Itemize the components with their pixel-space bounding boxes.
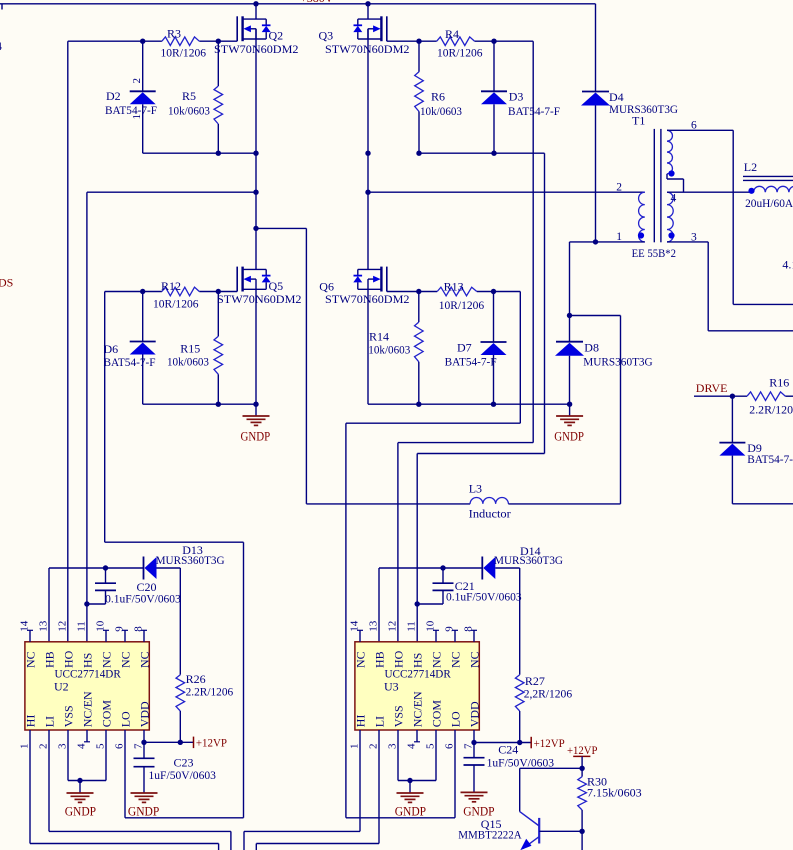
- svg-text:VDD: VDD: [468, 701, 482, 727]
- diode D13: [144, 557, 181, 580]
- wire node B bus: [415, 153, 545, 642]
- svg-text:MURS360T3G: MURS360T3G: [494, 555, 563, 567]
- svg-text:4: 4: [0, 39, 2, 53]
- label L2 value: [745, 196, 793, 210]
- svg-text:7.15k/0603: 7.15k/0603: [587, 786, 642, 800]
- inductor L3: [470, 498, 508, 504]
- wire T1 pin1 down: [567, 242, 572, 342]
- svg-text:STW70N60DM2: STW70N60DM2: [325, 42, 410, 56]
- resistor R6: [415, 41, 424, 153]
- resistor R27: [515, 568, 524, 743]
- svg-text:BAT54-7-F: BAT54-7-F: [104, 355, 156, 369]
- wire node A branch: [253, 226, 306, 504]
- svg-text:10k/0603: 10k/0603: [167, 355, 209, 369]
- svg-text:MURS360T3G: MURS360T3G: [583, 356, 652, 368]
- T1 winding5 to center tap: [667, 179, 684, 192]
- svg-text:10R/1206: 10R/1206: [437, 46, 483, 60]
- svg-text:D2: D2: [106, 89, 121, 103]
- wire U3 pin7 VDD: [471, 730, 531, 745]
- svg-text:UCC27714DR: UCC27714DR: [55, 666, 121, 680]
- svg-text:C23: C23: [174, 755, 194, 769]
- svg-text:GNDP: GNDP: [554, 430, 584, 444]
- T1 secondary dot 5: [668, 170, 674, 176]
- svg-text:VSS: VSS: [392, 705, 406, 727]
- svg-text:6: 6: [444, 743, 456, 749]
- node Q6 gate junction: [416, 289, 496, 294]
- transformer T1 core: [654, 129, 661, 242]
- svg-text:COM: COM: [100, 700, 114, 728]
- svg-text:14: 14: [349, 620, 361, 632]
- wire U2-HI to U3-LI: [30, 844, 379, 850]
- wire Q15 collector: [520, 768, 582, 811]
- wire Q3 gate bus: [398, 41, 533, 642]
- diode D7: [481, 292, 507, 405]
- label D9: [747, 441, 793, 466]
- svg-text:DS: DS: [0, 275, 13, 289]
- svg-text:NC: NC: [24, 651, 38, 668]
- svg-text:2.2R/120: 2.2R/120: [749, 403, 793, 417]
- svg-text:Q3: Q3: [319, 29, 334, 43]
- diode D4: [581, 4, 610, 242]
- svg-text:BAT54-7-F: BAT54-7-F: [445, 354, 497, 368]
- diode D6: [130, 292, 156, 405]
- svg-text:1uF/50V/0603: 1uF/50V/0603: [149, 770, 217, 782]
- IC U3 UCC27714DR body: [355, 642, 479, 730]
- node Q5 gate junction: [140, 289, 221, 294]
- svg-text:3: 3: [387, 743, 399, 749]
- svg-text:C20: C20: [137, 580, 157, 594]
- label R3: [161, 26, 207, 59]
- svg-text:6: 6: [691, 119, 697, 131]
- svg-text:10k/0603: 10k/0603: [420, 104, 462, 118]
- label UCC27714DR U3: [385, 666, 451, 680]
- svg-text:R16: R16: [769, 375, 789, 389]
- transistor Q6: [353, 267, 387, 292]
- svg-text:+12VP: +12VP: [567, 743, 598, 757]
- svg-text:R4: R4: [445, 27, 459, 41]
- resistor R16: [747, 392, 793, 401]
- inductor L2 core: [743, 176, 793, 180]
- node B rail dot: [365, 151, 370, 156]
- svg-text:R12: R12: [161, 279, 181, 293]
- svg-text:12: 12: [387, 621, 399, 632]
- svg-text:R6: R6: [431, 90, 445, 104]
- label R13: [439, 280, 485, 312]
- wire U2 pin2 LI: [48, 730, 50, 831]
- svg-text:EE 55B*2: EE 55B*2: [632, 248, 677, 260]
- svg-text:COM: COM: [430, 700, 444, 728]
- T1 secondary winding 6-5: [667, 130, 672, 179]
- svg-text:NC: NC: [354, 651, 368, 668]
- label C21: [446, 579, 522, 604]
- svg-text:1: 1: [349, 744, 361, 750]
- svg-text:10R/1206: 10R/1206: [153, 297, 199, 311]
- ground GNDP U2: [65, 793, 96, 819]
- label 4.1 (cropped): [782, 258, 793, 272]
- U3 pin4 NC/EN stub: [414, 730, 420, 742]
- pin numbers top U3: [349, 620, 475, 632]
- svg-text:5: 5: [95, 743, 107, 749]
- resistor R4: [437, 37, 475, 46]
- svg-text:14: 14: [19, 620, 31, 632]
- label Q5: [217, 279, 302, 306]
- ground GNDP C24: [461, 792, 495, 818]
- label U3: [384, 679, 399, 693]
- pin names bottom U3: [354, 691, 482, 727]
- svg-text:HI: HI: [24, 715, 38, 728]
- pin 1 of D2: [131, 114, 143, 120]
- wire node A to driver: [87, 190, 259, 195]
- svg-text:BAT54-7-: BAT54-7-: [747, 452, 793, 466]
- svg-text:BAT54-7-F: BAT54-7-F: [508, 104, 560, 118]
- svg-text:U3: U3: [384, 679, 399, 693]
- transistor Q3: [353, 16, 387, 41]
- svg-text:0.1uF/50V/0603: 0.1uF/50V/0603: [446, 592, 522, 604]
- label R26: [186, 672, 234, 699]
- pin 4 label T1: [671, 193, 677, 205]
- svg-text:NC/EN: NC/EN: [81, 691, 95, 727]
- resistor R26: [176, 568, 185, 742]
- label Q6: [319, 280, 409, 307]
- svg-text:VSS: VSS: [62, 705, 76, 727]
- diode D3: [481, 41, 507, 153]
- svg-text:1: 1: [616, 231, 622, 243]
- svg-text:VDD: VDD: [138, 701, 152, 727]
- svg-text:2,2R/1206: 2,2R/1206: [524, 687, 572, 701]
- wire Q5 gate row: [105, 291, 238, 293]
- node B rail: [416, 151, 544, 156]
- svg-text:MURS360T3G: MURS360T3G: [156, 555, 225, 567]
- svg-text:4.1: 4.1: [782, 258, 793, 272]
- IC U2 UCC27714DR body: [25, 642, 149, 730]
- svg-text:D4: D4: [609, 90, 624, 104]
- pin 2 of D2: [131, 78, 143, 84]
- svg-text:10R/1206: 10R/1206: [161, 46, 207, 60]
- pin 2 label T1: [616, 182, 622, 194]
- svg-text:HI: HI: [354, 715, 368, 728]
- node Q3 gate junction: [416, 39, 496, 44]
- svg-text:4: 4: [76, 743, 88, 749]
- svg-text:T1: T1: [632, 114, 645, 128]
- label D13: [156, 543, 225, 567]
- wire U3 pin1 HI: [359, 730, 361, 831]
- wire Q6 gate row: [387, 291, 521, 293]
- wire L3 left: [306, 503, 470, 505]
- U2 pin4 NC/EN stub: [84, 730, 90, 742]
- diode D8: [555, 342, 584, 405]
- svg-text:10k/0603: 10k/0603: [168, 103, 210, 117]
- pin numbers top U2: [19, 620, 145, 632]
- label R6: [420, 90, 462, 118]
- svg-text:U2: U2: [54, 679, 69, 693]
- svg-text:10k/0603: 10k/0603: [368, 342, 410, 356]
- svg-text:2: 2: [616, 182, 622, 194]
- svg-text:1: 1: [131, 114, 143, 120]
- U2 NC top pin stubs: [27, 630, 147, 642]
- diode D2: [130, 41, 156, 153]
- U3 NC top pin stubs: [357, 630, 477, 642]
- label D3: [508, 90, 560, 118]
- node Q2 gate junction: [140, 39, 221, 44]
- svg-text:STW70N60DM2: STW70N60DM2: [217, 292, 302, 306]
- pin 3 label T1: [691, 231, 697, 243]
- label C24: [487, 743, 555, 770]
- svg-text:UCC27714DR: UCC27714DR: [385, 666, 451, 680]
- wire +380V top rail: [0, 3, 596, 5]
- svg-text:10R/1206: 10R/1206: [439, 298, 485, 312]
- wire Q3 gate row: [387, 40, 533, 42]
- svg-text:D7: D7: [457, 341, 472, 355]
- ground GNDP row2 left: [241, 404, 271, 443]
- svg-text:GNDP: GNDP: [128, 805, 159, 819]
- label Q2: [214, 29, 299, 56]
- T1 center tap wire: [667, 191, 754, 193]
- T1 primary dot: [638, 232, 644, 238]
- svg-text:2: 2: [38, 744, 50, 750]
- label R12: [153, 279, 199, 311]
- svg-text:8: 8: [463, 626, 475, 632]
- pin 1 label T1: [616, 231, 622, 243]
- label L2: [744, 160, 757, 174]
- label EE55B*2: [632, 248, 677, 260]
- capacitor C24: [464, 743, 485, 793]
- transistor Q5: [237, 267, 271, 292]
- wire Q5 gate route: [105, 292, 244, 818]
- wire U3 pin2 LI: [378, 730, 380, 844]
- svg-text:GNDP: GNDP: [395, 805, 426, 819]
- wire node B to T1 pin2: [365, 190, 645, 195]
- pin 6 wire: [667, 130, 793, 304]
- svg-text:Q5: Q5: [269, 279, 284, 293]
- wire node B vertical: [367, 29, 369, 270]
- row2 right rail: [368, 402, 572, 407]
- wire stub left edge: [1, 4, 3, 10]
- svg-text:R5: R5: [182, 89, 196, 103]
- svg-text:20uH/60A: 20uH/60A: [745, 196, 793, 210]
- wire U2 pin7 VDD: [141, 730, 193, 745]
- svg-text:5: 5: [425, 743, 437, 749]
- svg-text:0.1uF/50V/0603: 0.1uF/50V/0603: [105, 594, 181, 606]
- svg-text:DRVE: DRVE: [696, 381, 728, 395]
- svg-text:LO: LO: [119, 711, 133, 727]
- svg-text:+12VP: +12VP: [534, 736, 566, 750]
- svg-text:R14: R14: [369, 329, 389, 343]
- pin 3 wire: [667, 242, 793, 331]
- svg-text:6: 6: [114, 743, 126, 749]
- svg-text:NC/EN: NC/EN: [411, 691, 425, 727]
- label R5: [168, 89, 210, 117]
- svg-text:+12VP: +12VP: [196, 736, 228, 750]
- wire Q5 source: [255, 289, 257, 404]
- resistor R3: [162, 37, 199, 46]
- label L3: [469, 482, 511, 521]
- wire U2 pin1 HI: [29, 730, 31, 844]
- svg-text:13: 13: [368, 620, 380, 632]
- resistor R15: [214, 292, 223, 405]
- svg-text:L2: L2: [744, 160, 757, 174]
- wire U3 pin6 LO: [346, 730, 455, 818]
- ground GNDP C23: [128, 793, 159, 819]
- net label DS (cropped): [0, 275, 13, 289]
- diode D14: [482, 557, 519, 580]
- node Q15 base: [579, 829, 584, 834]
- resistor R12: [162, 287, 199, 296]
- label T1: [632, 114, 645, 128]
- svg-text:10: 10: [95, 620, 107, 632]
- wire D8 node to L3: [570, 316, 621, 504]
- svg-text:10: 10: [425, 620, 437, 632]
- wire L3 right: [508, 503, 620, 505]
- label D7: [445, 341, 497, 369]
- svg-text:D6: D6: [104, 342, 119, 356]
- svg-text:Q2: Q2: [269, 29, 284, 43]
- svg-text:9: 9: [444, 626, 456, 632]
- label D6: [104, 342, 156, 369]
- T1 secondary dot 3: [668, 232, 674, 238]
- svg-text:1: 1: [19, 744, 31, 750]
- svg-text:8: 8: [133, 626, 145, 632]
- pin numbers bottom U2: [19, 743, 145, 749]
- svg-text:D8: D8: [584, 341, 599, 355]
- wire Q2 gate row: [68, 40, 237, 42]
- svg-text:MMBT2222A: MMBT2222A: [458, 828, 522, 842]
- wire DRVE: [694, 394, 747, 399]
- diode D9: [719, 396, 793, 504]
- capacitor C20: [87, 568, 116, 604]
- svg-text:3: 3: [57, 743, 69, 749]
- resistor R5: [214, 41, 223, 153]
- label R16: [749, 375, 793, 416]
- label R15: [167, 341, 209, 368]
- power port +12VP U3: [531, 736, 565, 750]
- svg-text:11: 11: [76, 621, 88, 632]
- wire Q6 gate route: [346, 292, 520, 818]
- label Q15: [458, 817, 522, 842]
- wire HB net U3: [379, 565, 482, 642]
- svg-text:Inductor: Inductor: [469, 507, 511, 521]
- svg-text:13: 13: [38, 620, 50, 632]
- wire HB net U2: [49, 565, 144, 642]
- svg-text:NC: NC: [468, 651, 482, 668]
- svg-text:LI: LI: [43, 716, 57, 727]
- net label 4 (cropped): [0, 39, 2, 53]
- wire Q2 gate bus: [67, 41, 69, 642]
- svg-text:+380V: +380V: [300, 0, 334, 5]
- power port +380V (cropped): [300, 0, 334, 5]
- power port +12VP U2: [194, 736, 228, 750]
- wire Q3 drain: [365, 1, 370, 19]
- svg-text:NC: NC: [138, 651, 152, 668]
- label R30: [587, 774, 642, 799]
- T1 pin 1 lead: [570, 239, 645, 244]
- power port DRVE: [696, 381, 728, 395]
- power port +12VP R30: [567, 743, 598, 769]
- T1 secondary winding 4-3: [667, 192, 673, 242]
- pin numbers bottom U3: [349, 743, 475, 749]
- svg-text:4: 4: [406, 743, 418, 749]
- pin names bottom U2: [24, 691, 152, 727]
- svg-text:4: 4: [671, 193, 677, 205]
- svg-text:R3: R3: [167, 26, 181, 40]
- pin names top U2: [24, 650, 152, 668]
- resistor R14: [415, 292, 424, 405]
- T1 primary winding: [639, 192, 645, 242]
- wire U3 VSS/COM: [398, 730, 436, 793]
- wire node A vertical: [255, 29, 257, 270]
- svg-text:GNDP: GNDP: [241, 430, 271, 444]
- label Q3: [319, 29, 410, 56]
- label R27: [524, 674, 572, 701]
- capacitor C21: [417, 568, 453, 604]
- svg-text:12: 12: [57, 621, 69, 632]
- svg-text:STW70N60DM2: STW70N60DM2: [325, 292, 410, 306]
- svg-text:C24: C24: [498, 743, 518, 757]
- svg-text:GNDP: GNDP: [65, 805, 96, 819]
- label C20: [105, 580, 181, 606]
- pin 6 label T1: [691, 119, 697, 131]
- label R14: [368, 329, 410, 356]
- ground GNDP row2 right: [554, 404, 584, 443]
- L2 polarity dot: [748, 188, 754, 194]
- svg-text:3: 3: [691, 231, 697, 243]
- wire U2-LI to U3-HI: [49, 831, 360, 850]
- svg-text:LI: LI: [373, 716, 387, 727]
- wire Q6 source: [367, 289, 369, 404]
- svg-text:R13: R13: [444, 280, 464, 294]
- label D14: [494, 544, 563, 567]
- svg-text:L3: L3: [469, 482, 482, 496]
- label D8: [583, 341, 652, 369]
- wire Q2 drain: [253, 1, 258, 19]
- svg-text:D3: D3: [509, 90, 524, 104]
- transistor Q2: [237, 16, 271, 41]
- svg-text:2.2R/1206: 2.2R/1206: [186, 684, 234, 698]
- transistor Q15: [520, 812, 582, 850]
- node R30 top: [579, 766, 584, 771]
- svg-text:LO: LO: [449, 711, 463, 727]
- node A rail: [143, 151, 259, 156]
- wire U2 pin6 LO: [125, 730, 244, 818]
- label D4: [609, 90, 678, 116]
- wire node A bus: [84, 192, 89, 642]
- svg-text:11: 11: [406, 621, 418, 632]
- label R4: [437, 27, 483, 60]
- svg-text:2: 2: [131, 78, 143, 84]
- label UCC27714DR U2: [55, 666, 121, 680]
- label U2: [54, 679, 69, 693]
- label D2: [105, 89, 157, 117]
- label C23: [149, 755, 217, 782]
- row2 left rail: [143, 402, 259, 407]
- ground GNDP U3: [395, 793, 426, 819]
- wire U2 VSS/COM: [68, 730, 106, 793]
- inductor L2: [754, 186, 793, 192]
- svg-text:R15: R15: [180, 341, 200, 355]
- svg-text:9: 9: [114, 626, 126, 632]
- resistor R30: [578, 768, 587, 850]
- svg-text:2: 2: [368, 744, 380, 750]
- pin names top U3: [354, 650, 482, 668]
- capacitor C23: [134, 742, 155, 793]
- resistor R13: [437, 287, 477, 296]
